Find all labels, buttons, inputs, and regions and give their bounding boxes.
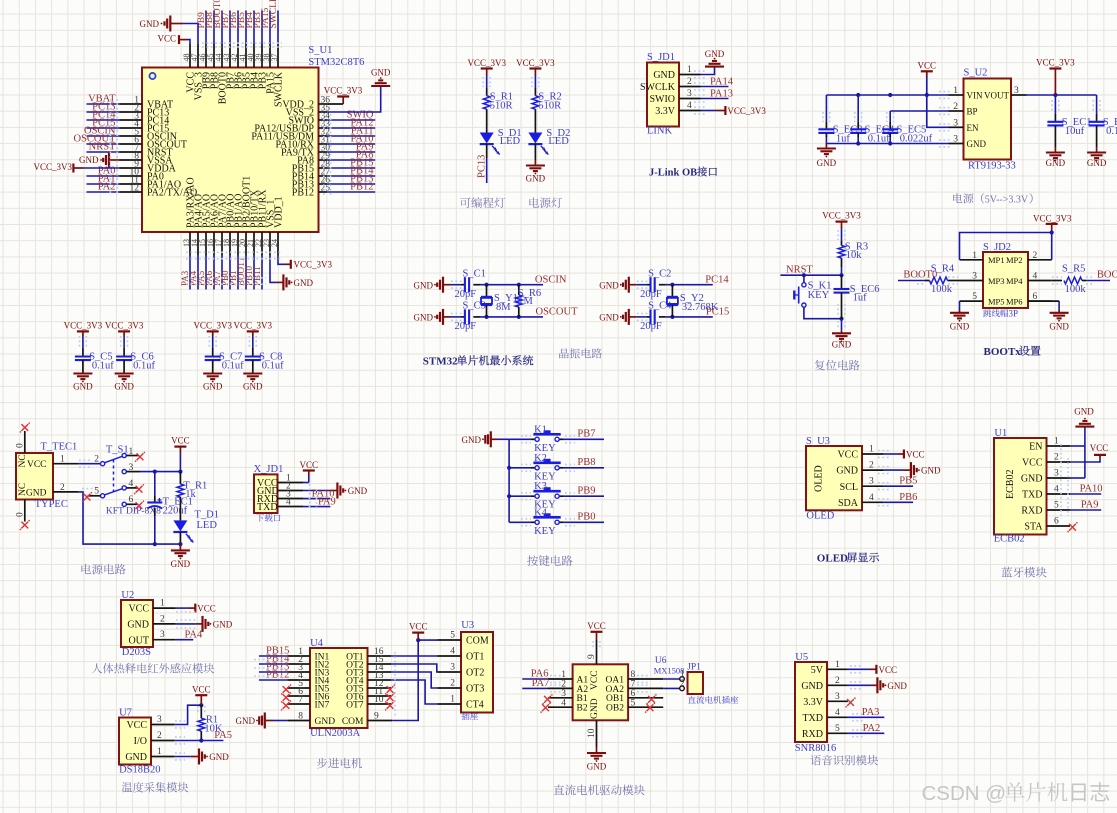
svg-text:2: 2 (953, 102, 958, 112)
svg-text:SDA: SDA (838, 498, 859, 509)
svg-text:3: 3 (129, 463, 134, 473)
svg-text:8M: 8M (496, 302, 511, 313)
svg-text:VCC_3V3: VCC_3V3 (467, 58, 506, 68)
svg-text:PB0: PB0 (577, 512, 595, 523)
svg-text:MP6: MP6 (1006, 297, 1023, 307)
svg-text:1: 1 (953, 86, 958, 96)
svg-text:VCC_3V3: VCC_3V3 (105, 321, 144, 331)
svg-text:MP1: MP1 (988, 255, 1005, 265)
svg-text:4: 4 (687, 101, 692, 111)
svg-text:PB7: PB7 (577, 429, 595, 440)
svg-text:PA9: PA9 (318, 496, 336, 507)
svg-text:0.1uf: 0.1uf (133, 360, 155, 371)
svg-text:GND: GND (371, 68, 391, 78)
svg-text:OLED: OLED (817, 553, 848, 565)
svg-text:S_R4: S_R4 (931, 263, 955, 274)
svg-text:PC15: PC15 (706, 307, 729, 318)
svg-text:GND: GND (1087, 158, 1107, 168)
svg-text:SWCLK: SWCLK (269, 0, 279, 29)
svg-text:BOOT1: BOOT1 (1097, 270, 1117, 281)
svg-text:PB8: PB8 (577, 457, 595, 468)
svg-text:S_R5: S_R5 (1062, 263, 1085, 274)
svg-text:MP5: MP5 (988, 297, 1005, 307)
svg-text:GND: GND (599, 313, 619, 323)
svg-text:3: 3 (972, 272, 977, 282)
svg-text:GND: GND (705, 49, 725, 59)
svg-text:10: 10 (374, 695, 384, 705)
svg-text:1uf: 1uf (853, 293, 868, 304)
svg-text:3: 3 (160, 630, 165, 640)
svg-text:GND: GND (887, 681, 907, 691)
svg-text:CSDN @: CSDN @ (922, 782, 1007, 805)
svg-text:VCC_3V3: VCC_3V3 (1036, 58, 1075, 68)
svg-text:GND: GND (950, 322, 970, 332)
svg-text:SWIO: SWIO (649, 94, 675, 105)
svg-text:MX1508: MX1508 (654, 665, 685, 675)
svg-text:GND: GND (348, 486, 368, 496)
svg-text:0.1uf: 0.1uf (1106, 126, 1117, 137)
svg-text:LED: LED (500, 136, 521, 147)
svg-text:OSCIN: OSCIN (535, 275, 567, 286)
svg-text:4: 4 (1054, 485, 1059, 495)
svg-text:VCC_3V3: VCC_3V3 (822, 211, 861, 221)
svg-text:5V: 5V (811, 665, 824, 676)
svg-text:PA2: PA2 (98, 182, 116, 193)
svg-text:JP1: JP1 (687, 663, 701, 673)
svg-text:GND: GND (315, 717, 336, 727)
svg-text:VCC: VCC (27, 460, 47, 470)
svg-text:3: 3 (450, 663, 455, 673)
svg-text:GND: GND (127, 620, 149, 631)
svg-text:1: 1 (1054, 437, 1059, 447)
svg-text:3: 3 (953, 118, 958, 128)
svg-text:5: 5 (972, 292, 977, 302)
svg-text:VCC: VCC (128, 604, 149, 615)
svg-text:1k: 1k (185, 489, 196, 500)
svg-text:RXD: RXD (1021, 506, 1042, 517)
svg-text:24: 24 (270, 239, 279, 247)
svg-text:KEY: KEY (534, 526, 556, 537)
svg-text:VCC: VCC (587, 621, 606, 631)
svg-text:T_S1: T_S1 (106, 444, 129, 455)
svg-text:20pF: 20pF (640, 289, 662, 300)
svg-text:3: 3 (1054, 469, 1059, 479)
svg-text:VOUT: VOUT (984, 91, 1009, 101)
svg-text:20pF: 20pF (455, 321, 477, 332)
svg-text:100k: 100k (931, 284, 953, 295)
svg-text:VCC_3V3: VCC_3V3 (516, 58, 555, 68)
svg-text:PC14: PC14 (705, 275, 729, 286)
svg-text:GND: GND (414, 313, 434, 323)
svg-text:VCC_3V3: VCC_3V3 (324, 86, 363, 96)
svg-text:0.1uf: 0.1uf (92, 360, 114, 371)
svg-text:6: 6 (1054, 517, 1059, 527)
svg-text:12: 12 (130, 184, 140, 194)
svg-text:GND: GND (653, 70, 675, 81)
svg-text:100k: 100k (1065, 284, 1087, 295)
svg-text:X_JD1: X_JD1 (254, 464, 284, 475)
svg-text:4: 4 (869, 493, 874, 503)
svg-text:PB9: PB9 (577, 485, 595, 496)
svg-text:U6: U6 (655, 656, 667, 666)
svg-text:510R: 510R (538, 101, 561, 112)
svg-text:VCC: VCC (906, 450, 925, 460)
svg-text:PC13: PC13 (477, 155, 488, 178)
svg-text:VCC: VCC (918, 60, 937, 70)
svg-text:OSCOUT: OSCOUT (536, 307, 579, 318)
svg-text:GND: GND (414, 280, 434, 290)
svg-text:1M: 1M (518, 296, 533, 307)
svg-text:PA3: PA3 (862, 707, 880, 718)
svg-text:J-Link OB: J-Link OB (649, 168, 697, 179)
svg-text:VCC_3V3: VCC_3V3 (727, 106, 766, 116)
svg-text:1: 1 (869, 445, 874, 455)
svg-text:TXD: TXD (257, 502, 278, 513)
svg-text:3: 3 (835, 692, 840, 702)
svg-text:MP3: MP3 (988, 276, 1005, 286)
svg-text:STA: STA (1024, 522, 1043, 533)
svg-text:3: 3 (687, 89, 692, 99)
svg-text:ECB02: ECB02 (994, 534, 1025, 545)
svg-text:PA10: PA10 (1080, 484, 1103, 495)
svg-text:4: 4 (1033, 272, 1038, 282)
svg-text:K4: K4 (534, 507, 548, 518)
svg-text:GND: GND (125, 752, 147, 763)
svg-text:2: 2 (869, 461, 874, 471)
svg-text:6: 6 (129, 495, 134, 505)
svg-text:BP: BP (967, 107, 978, 117)
svg-text:PA2: PA2 (863, 723, 881, 734)
svg-text:NRST: NRST (89, 142, 116, 153)
svg-text:5: 5 (835, 724, 840, 734)
svg-text:4: 4 (286, 498, 291, 508)
svg-text:7: 7 (298, 695, 303, 705)
svg-text:4: 4 (835, 708, 840, 718)
svg-text:3: 3 (869, 477, 874, 487)
svg-text:510R: 510R (490, 101, 513, 112)
svg-text:KFT DIP-8X8: KFT DIP-8X8 (106, 507, 161, 517)
svg-text:37: 37 (270, 54, 279, 62)
svg-text:GND: GND (26, 488, 47, 498)
svg-text:S_C1: S_C1 (463, 269, 486, 280)
svg-text:OLED: OLED (814, 465, 825, 492)
svg-text:4: 4 (450, 647, 455, 657)
svg-text:VCC: VCC (590, 670, 600, 690)
svg-text:PA9: PA9 (1081, 500, 1099, 511)
svg-text:1: 1 (60, 455, 65, 465)
svg-text:SWCLK: SWCLK (640, 82, 676, 93)
svg-text:GND: GND (599, 280, 619, 290)
svg-text:5: 5 (450, 631, 455, 641)
svg-text:2: 2 (1054, 453, 1059, 463)
svg-text:VDD_1: VDD_1 (273, 196, 284, 228)
svg-text:U2: U2 (121, 590, 134, 601)
svg-text:VCC: VCC (879, 665, 898, 675)
svg-text:K1: K1 (534, 424, 547, 435)
svg-text:VIN: VIN (967, 91, 983, 101)
svg-text:U5: U5 (795, 652, 808, 663)
svg-text:3P: 3P (1009, 308, 1019, 318)
svg-text:GND: GND (73, 382, 93, 392)
svg-text:2: 2 (60, 483, 65, 493)
svg-text:0: 0 (16, 443, 26, 448)
svg-text:PA13: PA13 (710, 89, 733, 100)
svg-text:GND: GND (921, 466, 941, 476)
svg-text:D203S: D203S (122, 647, 151, 658)
svg-text:GND: GND (243, 382, 263, 392)
svg-text:PA5: PA5 (214, 730, 232, 741)
svg-text:S_JD2: S_JD2 (983, 242, 1011, 253)
svg-text:VCC: VCC (837, 450, 858, 461)
svg-text:3.3V: 3.3V (655, 106, 676, 117)
svg-text:COM: COM (466, 636, 489, 647)
svg-text:GND: GND (1046, 158, 1066, 168)
svg-text:ECB02: ECB02 (1005, 470, 1016, 499)
svg-text:GND: GND (209, 752, 229, 762)
svg-text:PB12: PB12 (292, 188, 314, 199)
svg-text:IN7: IN7 (315, 700, 330, 710)
svg-text:COM: COM (342, 717, 364, 727)
svg-text:VCC: VCC (197, 604, 216, 614)
svg-text:ULN2003A: ULN2003A (310, 728, 361, 739)
svg-text:U4: U4 (310, 638, 324, 649)
svg-text:1: 1 (972, 251, 977, 261)
svg-text:PB5: PB5 (899, 476, 917, 487)
svg-text:VCC: VCC (409, 622, 428, 632)
svg-text:GND: GND (213, 619, 233, 629)
svg-text:VCC: VCC (192, 684, 211, 694)
svg-text:S_C2: S_C2 (648, 269, 671, 280)
svg-text:4: 4 (561, 698, 566, 708)
svg-text:1: 1 (157, 747, 162, 757)
svg-text:GND: GND (1049, 322, 1069, 332)
svg-text:GND: GND (836, 466, 858, 477)
svg-text:VCC_3V3: VCC_3V3 (193, 321, 232, 331)
svg-text:0.1uf: 0.1uf (262, 360, 284, 371)
svg-text:CT4: CT4 (466, 700, 484, 711)
svg-text:10uf: 10uf (1065, 126, 1085, 137)
svg-text:PB11: PB11 (252, 266, 262, 286)
svg-text:VCC_3V3: VCC_3V3 (64, 321, 103, 331)
svg-text:OT3: OT3 (466, 684, 484, 695)
svg-text:VCC_3V3: VCC_3V3 (234, 321, 273, 331)
svg-text:PA4: PA4 (185, 629, 203, 640)
svg-text:2: 2 (687, 77, 692, 87)
svg-text:GND: GND (832, 340, 852, 350)
svg-text:EN: EN (1029, 442, 1042, 453)
svg-text:OUT: OUT (128, 635, 149, 646)
svg-text:BOOTx: BOOTx (984, 346, 1022, 358)
svg-text:GND: GND (587, 762, 607, 772)
svg-text:20pF: 20pF (640, 321, 662, 332)
svg-text:GND: GND (140, 19, 160, 29)
svg-text:S_C3: S_C3 (463, 301, 486, 312)
svg-text:GND: GND (1021, 474, 1043, 485)
svg-text:2: 2 (94, 455, 99, 465)
svg-text:5: 5 (631, 698, 636, 708)
svg-text:2: 2 (160, 614, 165, 624)
svg-text:VCC_3V3: VCC_3V3 (1033, 213, 1072, 223)
svg-text:LED: LED (197, 520, 218, 531)
svg-text:OT7: OT7 (346, 700, 364, 710)
svg-text:8: 8 (298, 712, 303, 722)
svg-text:OT1: OT1 (466, 652, 484, 663)
svg-text:1: 1 (687, 65, 692, 75)
svg-text:PB12: PB12 (350, 182, 373, 193)
svg-text:GND: GND (203, 382, 223, 392)
svg-text:10: 10 (587, 728, 597, 738)
svg-text:2: 2 (157, 731, 162, 741)
svg-text:LED: LED (548, 136, 569, 147)
svg-text:GND: GND (294, 278, 314, 288)
svg-text:2: 2 (680, 678, 685, 688)
svg-text:TXD: TXD (802, 713, 823, 724)
svg-text:1: 1 (160, 599, 165, 609)
svg-text:GND: GND (171, 559, 191, 569)
svg-text:S_U2: S_U2 (964, 68, 988, 79)
svg-text:0: 0 (16, 512, 26, 517)
svg-text:PB6: PB6 (899, 492, 917, 503)
svg-text:PB12: PB12 (266, 670, 289, 681)
svg-text:VCC: VCC (126, 720, 147, 731)
svg-text:SNR8016: SNR8016 (795, 743, 836, 754)
svg-text:GND: GND (817, 158, 837, 168)
svg-text:0.1uf: 0.1uf (222, 360, 244, 371)
svg-text:220uf: 220uf (163, 506, 188, 517)
svg-text:OLED: OLED (806, 510, 834, 521)
svg-text:9: 9 (374, 712, 379, 722)
svg-text:GND: GND (114, 382, 134, 392)
svg-text:PA7: PA7 (532, 678, 550, 689)
svg-text:U7: U7 (119, 708, 132, 719)
svg-text:10k: 10k (846, 250, 863, 261)
svg-text:9: 9 (587, 654, 597, 659)
svg-text:5: 5 (1054, 501, 1059, 511)
svg-text:KEY: KEY (808, 290, 830, 301)
svg-text:U3: U3 (461, 620, 474, 631)
svg-text:2: 2 (1033, 251, 1038, 261)
svg-text:S_U3: S_U3 (806, 436, 830, 447)
svg-text:GND: GND (526, 174, 546, 184)
svg-text:1: 1 (835, 660, 840, 670)
svg-text:RT9193-33: RT9193-33 (968, 161, 1016, 172)
svg-text:GND: GND (1074, 407, 1094, 417)
svg-text:U1: U1 (994, 428, 1007, 439)
svg-text:5: 5 (94, 487, 99, 497)
svg-text:3: 3 (157, 715, 162, 725)
svg-text:S_JD1: S_JD1 (647, 52, 675, 63)
svg-text:GND: GND (967, 139, 987, 149)
svg-text:NRST: NRST (786, 265, 813, 276)
svg-text:SCL: SCL (840, 482, 858, 493)
svg-text:GND: GND (236, 716, 256, 726)
svg-text:LINK: LINK (647, 126, 672, 137)
svg-text:VCC_3V3: VCC_3V3 (33, 162, 72, 172)
svg-text:MP4: MP4 (1006, 276, 1023, 286)
svg-text:VCC: VCC (157, 34, 176, 44)
svg-text:S_C4: S_C4 (648, 301, 672, 312)
svg-text:GND: GND (590, 698, 600, 719)
svg-text:3.3V: 3.3V (803, 697, 824, 708)
svg-text:VCC: VCC (171, 436, 190, 446)
svg-text:VCC: VCC (1022, 458, 1043, 469)
svg-text:5V-->3.3V: 5V-->3.3V (985, 195, 1029, 206)
svg-text:3: 3 (953, 135, 958, 145)
svg-text:20pF: 20pF (455, 289, 477, 300)
svg-text:S_U1: S_U1 (308, 45, 332, 56)
svg-text:GND: GND (801, 681, 823, 692)
svg-text:2: 2 (835, 676, 840, 686)
svg-text:TXD: TXD (1022, 490, 1043, 501)
svg-text:T_TEC1: T_TEC1 (41, 442, 78, 453)
svg-text:SWCLK: SWCLK (273, 71, 284, 107)
svg-text:STM32: STM32 (423, 356, 458, 368)
svg-text:OB2: OB2 (606, 704, 624, 714)
svg-text:K2: K2 (534, 453, 547, 464)
svg-text:MP2: MP2 (1006, 255, 1023, 265)
svg-text:TYPEC: TYPEC (35, 499, 68, 510)
svg-text:2: 2 (450, 679, 455, 689)
svg-text:VCC_3V3: VCC_3V3 (294, 260, 333, 270)
svg-text:DS18B20: DS18B20 (119, 765, 160, 776)
svg-text:3: 3 (1014, 86, 1019, 96)
svg-text:B2: B2 (577, 704, 588, 714)
svg-text:1: 1 (129, 447, 134, 457)
svg-text:K3: K3 (534, 481, 547, 492)
svg-text:RXD: RXD (802, 729, 823, 740)
svg-text:GND: GND (79, 155, 99, 165)
svg-text:I/O: I/O (134, 736, 147, 747)
svg-text:GND: GND (462, 435, 482, 445)
svg-text:OT2: OT2 (466, 668, 484, 679)
svg-text:STM32C8T6: STM32C8T6 (308, 57, 364, 68)
svg-text:VCC: VCC (1090, 443, 1109, 453)
svg-text:1: 1 (450, 695, 455, 705)
svg-text:PA14: PA14 (710, 77, 734, 88)
svg-text:VCC: VCC (300, 460, 319, 470)
svg-text:EN: EN (967, 123, 979, 133)
svg-text:4: 4 (129, 479, 134, 489)
